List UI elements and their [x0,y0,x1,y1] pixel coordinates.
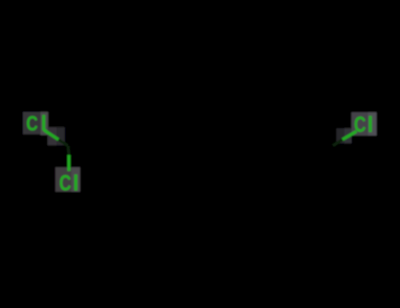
label background box Cl1 (right light part) [41,112,49,135]
svg-text:l: l [41,112,47,136]
svg-text:l: l [367,112,373,137]
label background box Cl3 (right light part) [368,112,377,135]
label background box Cl3 (left dark part) [352,112,369,135]
bond midpoint box near Cl1 (lighter left part) [48,127,57,145]
svg-text:l: l [73,170,79,195]
bond C1-Cl2 black half [67,146,71,157]
bond C11-Cl3 black half [333,140,342,146]
bond C1-Cl1 black half [59,140,68,146]
svg-text:C: C [26,112,38,136]
bond midpoint box near Cl1 (darker right part) [57,127,65,145]
bond C1-Cl2 green half [67,155,70,171]
bond C11-Cl3 green half [342,131,356,139]
bond C1-Cl1 green half [44,130,59,140]
vertex box near Cl3 (lighter right part) [344,128,351,143]
label background box Cl2 (left dark part) [56,167,72,192]
vertex box near Cl3 (darker left part) [337,128,345,143]
carbon chain skeleton (black bonds, invisible on black) [68,131,330,147]
label background box Cl1 (left dark part) [23,112,41,134]
svg-text:C: C [354,113,366,138]
svg-text:C: C [59,171,71,196]
label background box Cl2 (right light part) [72,167,81,192]
